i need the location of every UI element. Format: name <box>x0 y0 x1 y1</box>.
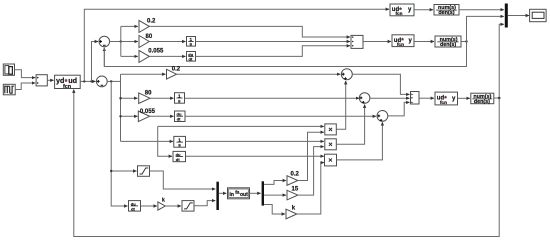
node sum1 distribution <box>120 40 122 42</box>
svg-text:fcn: fcn <box>440 100 447 105</box>
wire derivative top to mux1 (jog) <box>196 46 351 57</box>
wire to gain 80 mid <box>121 97 138 99</box>
scope <box>530 9 547 21</box>
wire tf3 out to plant node <box>494 97 499 99</box>
svg-text:0.2: 0.2 <box>147 18 156 24</box>
gain k (bottom) <box>286 205 297 219</box>
fuzzy controller block in/out <box>228 188 250 199</box>
gain 0.055 (mid) <box>138 109 155 122</box>
wire gain0.2bot riser to product1 in2 <box>298 132 324 180</box>
svg-text:fcn: fcn <box>397 42 404 47</box>
wire drop to derivative bottom <box>158 126 172 156</box>
svg-text:80: 80 <box>145 91 152 97</box>
svg-text:s: s <box>190 42 193 47</box>
svg-text:0.055: 0.055 <box>148 49 164 55</box>
wire tf2 out to vertical node <box>461 41 467 43</box>
derivative du/dt (mid) <box>175 111 186 122</box>
svg-text:fcn: fcn <box>396 11 403 16</box>
wire to integrator bottom <box>121 140 174 142</box>
svg-text:dt: dt <box>176 157 180 162</box>
saturation 1 <box>138 166 150 177</box>
wire gainkbot riser to product3 in2 <box>297 163 324 214</box>
wire der2 to gain k small <box>141 205 157 207</box>
wire derivative mid to sum5 <box>185 115 376 117</box>
integrator 1/s (bottom) <box>174 136 186 147</box>
wire outer feedback loop <box>74 90 499 237</box>
wire sat2 to mux bar (jog up) <box>194 201 215 206</box>
wire step to mux <box>15 70 36 78</box>
demux bar <box>262 181 264 205</box>
svg-text:0.2: 0.2 <box>172 67 181 73</box>
sum3 <box>341 69 352 80</box>
derivative du/dt (bottom row 2) <box>129 201 141 212</box>
wire product2 out to sum4 bottom <box>336 105 364 145</box>
wire gain80mid to integrator mid <box>150 97 174 99</box>
wire to gain 0.2 mid <box>121 73 166 75</box>
node sum2 out down-branch <box>110 80 112 82</box>
svg-text:in: in <box>230 192 234 198</box>
wire demux out3 to gain k bot <box>264 205 285 215</box>
wire to gain 80 top <box>121 41 138 43</box>
svg-text:s: s <box>178 143 181 148</box>
wire demux out2 to gain 15 bot <box>264 194 286 196</box>
wire gain0.055mid to derivative mid <box>150 115 174 117</box>
wire demux out1 to gain 0.2 bot <box>264 181 286 185</box>
fcn yd*ud <box>55 75 81 90</box>
wire gain0.055top to derivative <box>149 55 185 57</box>
transfer fcn 3 num(s)/den(s) <box>471 93 494 105</box>
wire sat1 to mux bar (jog down) <box>150 171 216 189</box>
transfer fcn 2 num(s)/den(s) <box>435 36 461 48</box>
mux bar (fuzzy in) <box>216 182 219 210</box>
derivative du/dt (bottom) <box>173 151 186 162</box>
wire tf1 to scope mux in1 <box>459 9 504 11</box>
wire sum4 out to mux2 in2 <box>370 97 410 99</box>
svg-text:80: 80 <box>146 34 153 40</box>
wire sum1 bottom feedback entry <box>103 48 105 67</box>
wire tf2 up to scope mux in2 <box>467 16 504 41</box>
gain 80 (top) <box>139 34 153 48</box>
svg-text:fcn: fcn <box>63 84 71 90</box>
sum5 <box>377 111 388 122</box>
svg-text:dt: dt <box>189 57 193 62</box>
wire fcn3 to tf3 <box>458 97 470 99</box>
wire to gain 0.055 top <box>121 55 138 57</box>
gain 0.055 (top) <box>139 49 164 63</box>
svg-text:out: out <box>240 192 248 198</box>
wire fcn output <box>80 80 95 82</box>
wire integrator top to mux1 <box>196 41 351 43</box>
wire product1 out to sum3 bottom <box>336 81 345 129</box>
wire fcn1 to tf1 <box>414 9 433 11</box>
node T sat1 <box>110 170 112 172</box>
wire riser to sum1 <box>92 42 99 82</box>
step source block <box>3 64 14 75</box>
gain 0.2 (bottom) <box>287 172 300 186</box>
product 2 <box>325 139 337 150</box>
wire sum5 out to mux2 in3 <box>388 102 410 116</box>
product 1 <box>325 124 337 135</box>
gain 0.2 (mid) <box>167 67 181 79</box>
svg-text:15: 15 <box>292 186 299 192</box>
svg-text:s: s <box>178 98 181 103</box>
wire fcn2 to tf2 <box>414 41 434 43</box>
transfer fcn 1 num(s)/den(s) <box>434 5 459 17</box>
sum2 <box>96 76 107 87</box>
node mid dist 80 <box>119 97 121 99</box>
wire mux to fcn <box>47 79 53 81</box>
saturation 2 <box>182 201 194 212</box>
wire to gain 0.2 top <box>121 25 138 27</box>
svg-text:den(s): den(s) <box>440 42 456 48</box>
wire scope mux to scope <box>508 15 529 17</box>
node A (branch to top line) <box>83 80 85 82</box>
fcn3 ud*y <box>435 92 458 105</box>
scope mux bar <box>505 4 508 28</box>
fcn1 ud*y (top) <box>390 4 414 16</box>
wire product3 out to sum5 bottom <box>337 122 383 160</box>
wire integrator bottom to product2 in1 <box>186 140 324 142</box>
wire gain80top to integrator <box>149 41 185 43</box>
wire pulse to mux <box>15 83 35 90</box>
derivative du/dt (top) <box>187 52 196 62</box>
wire mux1 to fcn2 <box>363 41 391 43</box>
wire mid distribution riser <box>120 74 122 141</box>
sum1 <box>99 36 110 47</box>
wire gain k to sat2 <box>165 205 181 207</box>
wire tf2 down feedback to sum1 <box>104 42 466 67</box>
svg-text:dt: dt <box>177 117 181 122</box>
node tf2 branch <box>465 40 467 42</box>
mux (sources) <box>36 75 47 86</box>
wire sum3 out to mux2 in1 <box>352 74 409 94</box>
node plant output <box>498 97 501 100</box>
wire mux bar to fis <box>219 192 226 194</box>
wire fis to demux bar <box>250 192 261 194</box>
wire P1 feed line <box>158 125 324 127</box>
integrator 1/s (top) <box>187 37 196 47</box>
pulse source block <box>3 84 15 95</box>
gain 15 (bottom) <box>287 186 299 200</box>
node mid dist 0.055 <box>119 115 121 117</box>
svg-text:dt: dt <box>131 206 135 211</box>
wire mux2 to fcn3 <box>419 97 434 99</box>
wire T to saturation1 <box>111 170 136 172</box>
product 3 <box>325 154 337 166</box>
integrator 1/s (mid) <box>175 93 185 104</box>
fcn2 ud*y <box>392 35 414 47</box>
wire derivative bottom to product3 in1 <box>186 155 324 157</box>
wire distribution riser top section <box>120 26 122 56</box>
gain 0.2 (top) <box>139 18 156 32</box>
wire gain15bot riser to product2 in2 <box>298 147 324 196</box>
wire sum1 out to distribution <box>110 41 121 43</box>
gain 80 (mid) <box>139 91 152 104</box>
svg-text:0.2: 0.2 <box>291 172 300 178</box>
sum4 <box>359 93 370 104</box>
wire integrator mid to sum4 <box>185 97 360 99</box>
mux1 <box>351 35 363 48</box>
svg-text:den(s): den(s) <box>438 10 454 16</box>
svg-text:k: k <box>162 198 165 204</box>
wire riser to top line and top line to fcn1 <box>84 9 389 81</box>
svg-text:den(s): den(s) <box>474 99 490 105</box>
mux2 <box>411 92 420 105</box>
svg-text:0.055: 0.055 <box>140 109 156 115</box>
wire sum2 out <box>107 80 120 82</box>
wire to gain 0.055 mid <box>121 115 138 117</box>
wire long vertical to bottom row <box>111 81 127 206</box>
node B (branch to sum1) <box>90 80 92 82</box>
gain k (small, bottom row) <box>158 198 165 211</box>
wire gain0.2top to mux1 (jog) <box>149 26 350 37</box>
wire plant output riser to scope mux in3 <box>499 24 504 98</box>
wire gain0.2mid to sum3 <box>177 73 341 75</box>
